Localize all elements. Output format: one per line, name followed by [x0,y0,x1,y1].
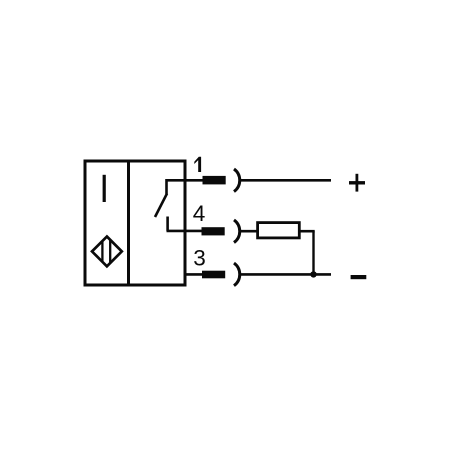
svg-text:3: 3 [193,246,206,271]
svg-text:4: 4 [193,201,206,226]
